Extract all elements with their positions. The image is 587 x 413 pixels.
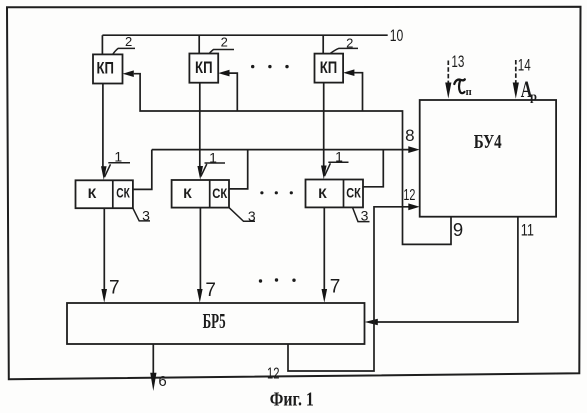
arrow 7 into BR5 (3rd)	[322, 289, 328, 303]
svg-text:12: 12	[267, 366, 280, 383]
input 13 arrow	[447, 61, 449, 85]
dots above BR5	[259, 278, 296, 282]
block KP2 (КП)	[189, 54, 218, 83]
block BU4 (БУ4)	[420, 100, 556, 217]
svg-text:10: 10	[390, 26, 404, 45]
svg-text:3: 3	[361, 208, 369, 224]
wire: SK1 up to line 8	[133, 150, 152, 190]
label 3 (K/SK2 leader)	[229, 208, 255, 222]
svg-text:14: 14	[518, 56, 531, 75]
svg-text:Фиг. 1: Фиг. 1	[270, 389, 314, 411]
wire: drop from bus to KP2	[198, 35, 200, 53]
wire: drop from bus to KP1	[101, 35, 103, 54]
input 14 arrow	[515, 60, 517, 84]
svg-text:1: 1	[335, 149, 343, 165]
wire: line 8 into BU4	[152, 149, 410, 151]
arrow 11 into BR5	[365, 319, 378, 326]
block K/SK3	[306, 180, 364, 208]
label 1 (K/SK1)	[105, 163, 131, 177]
wire: drop from bus to KP3	[322, 35, 324, 53]
arrow 1 into K/SK2	[197, 166, 203, 180]
svg-text:7: 7	[330, 277, 341, 298]
wire: branch 9 to KP3	[354, 73, 362, 111]
wire: top bus line 10	[102, 34, 387, 36]
block BR5 (БР5)	[67, 303, 365, 344]
svg-text:КП: КП	[96, 58, 114, 77]
wire: feedback 9 from BU4 bottom to KP boxes	[134, 74, 451, 245]
svg-text:6: 6	[158, 373, 166, 390]
svg-text:К: К	[183, 185, 192, 201]
svg-text:КП: КП	[320, 58, 338, 77]
dots between K/SK2 and K/SK3	[260, 191, 293, 194]
wire: output 6	[152, 344, 154, 374]
svg-text:2: 2	[221, 35, 228, 50]
svg-text:п: п	[466, 87, 472, 98]
svg-text:СК: СК	[116, 185, 130, 201]
wire: feedback 12 from BR5 to BU4	[288, 207, 410, 371]
svg-text:К: К	[88, 185, 97, 201]
wire: K3 down to BR5	[323, 207, 325, 290]
wire: branch 9 to KP2	[229, 73, 237, 111]
arrow 12 into BU4	[408, 203, 419, 210]
svg-text:КП: КП	[195, 58, 213, 77]
label 3 (K/SK1 leader)	[133, 208, 150, 221]
svg-text:13: 13	[451, 52, 464, 71]
label 2 (KP3 leader)	[331, 48, 359, 53]
arrow 9 into KP1	[123, 70, 134, 77]
block KP1 (КП)	[93, 54, 123, 83]
svg-text:2: 2	[125, 34, 132, 49]
arrow 7 into BR5 (1st)	[101, 289, 107, 303]
node tau_p label	[454, 79, 465, 84]
svg-text:БР5: БР5	[203, 309, 226, 333]
svg-text:1: 1	[209, 149, 217, 165]
wire: SK2 up to line 8	[229, 150, 248, 189]
block KP3 (КП)	[315, 54, 344, 83]
arrow into KP2	[218, 70, 229, 77]
svg-text:11: 11	[521, 221, 534, 240]
block K/SK1	[76, 180, 133, 208]
svg-text:3: 3	[142, 208, 150, 224]
svg-text:К: К	[318, 185, 327, 201]
wire: K1 down to BR5	[103, 208, 105, 290]
wire: KP2 down to K/SK2	[199, 83, 201, 167]
svg-text:2: 2	[346, 35, 353, 50]
arrow 8 into BU4	[408, 146, 419, 153]
arrow 1 into K/SK1	[101, 166, 107, 180]
wire: KP1 down to K/SK1	[102, 84, 104, 168]
arrow 6	[150, 373, 156, 391]
wire: line 11 from BU4 to BR5	[377, 217, 518, 322]
label 2 (KP1 leader)	[113, 48, 135, 53]
svg-text:9: 9	[453, 219, 463, 240]
label 1 (K/SK3)	[325, 162, 349, 176]
svg-text:8: 8	[405, 126, 414, 145]
arrow into KP3	[343, 69, 354, 76]
svg-text:3: 3	[248, 208, 256, 224]
svg-text:СК: СК	[212, 185, 227, 201]
label 2 (KP2 leader)	[210, 50, 235, 54]
block K/SK2	[172, 180, 229, 208]
svg-text:1: 1	[114, 148, 122, 164]
wire: SK3 up to line 8	[363, 150, 383, 187]
svg-text:7: 7	[109, 278, 120, 299]
svg-text:7: 7	[205, 280, 216, 301]
dots between KP2 and KP3	[251, 65, 289, 68]
arrow 7 into BR5 (2nd)	[197, 289, 203, 303]
svg-text:12: 12	[403, 187, 415, 204]
wire: K2 down to BR5	[199, 208, 201, 290]
wire: KP3 down to K/SK3	[323, 83, 325, 167]
label 3 (K/SK3 leader)	[353, 207, 370, 221]
label 1 (K/SK2)	[201, 163, 225, 177]
arrow 1 into K/SK3	[321, 166, 327, 180]
svg-text:БУ4: БУ4	[474, 132, 502, 153]
svg-text:СК: СК	[346, 185, 361, 201]
svg-text:р: р	[530, 90, 537, 104]
